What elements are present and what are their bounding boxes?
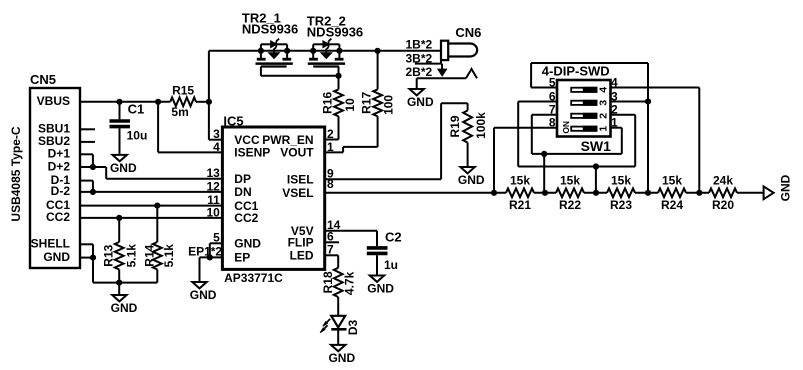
svg-text:DN: DN [234, 185, 251, 199]
svg-text:CN5: CN5 [30, 72, 56, 87]
svg-text:3: 3 [598, 100, 610, 106]
svg-text:GND: GND [407, 95, 434, 109]
node VBUS/C1 junction [116, 99, 122, 105]
ground GND under R13/R14 [111, 283, 138, 315]
wire D-2 / DN to IC5 pin 12 [80, 191, 222, 193]
svg-text:100: 100 [382, 95, 396, 115]
svg-text:DP: DP [234, 172, 251, 186]
IC5 left pin numbers [206, 127, 220, 245]
SW1 left pin numbers [549, 75, 556, 129]
svg-text:VBUS: VBUS [37, 94, 70, 108]
wire SW1 pin 7 / pin 1 net to chain J2 [532, 115, 622, 154]
svg-text:24k: 24k [713, 173, 733, 187]
svg-text:EP: EP [234, 251, 250, 265]
IC5 left pin names [234, 133, 270, 265]
wire R13/R14 ground rail [93, 282, 157, 284]
wire SW1 pin 4 to chain J5 [611, 88, 700, 193]
resistor R18 4.7k [321, 268, 357, 316]
resistor R15 5m [170, 83, 209, 119]
svg-text:100k: 100k [474, 112, 488, 139]
svg-text:R24: R24 [661, 198, 683, 212]
transistor TR2_2 NDS9936 [307, 13, 363, 66]
svg-text:4: 4 [213, 140, 220, 154]
resistor R14 5.1k [143, 206, 177, 283]
ground GND under D3 [328, 345, 355, 365]
svg-text:1: 1 [327, 140, 334, 154]
svg-text:C2: C2 [385, 230, 402, 245]
svg-text:13: 13 [206, 166, 220, 180]
wire SW1 pin 6 / pin 2 net [518, 102, 635, 167]
svg-text:IC5: IC5 [223, 113, 243, 128]
wire D+2 / DP to IC5 pin 13 [80, 167, 222, 179]
node pin7 net junction [541, 151, 547, 157]
svg-text:R22: R22 [559, 198, 581, 212]
node pin3 junction [645, 98, 651, 104]
svg-text:SHELL: SHELL [31, 237, 70, 251]
svg-text:NDS9936: NDS9936 [307, 24, 363, 39]
svg-text:D3: D3 [346, 320, 360, 336]
node CN5 GND junction [90, 255, 96, 261]
wire CN6 switch arrow [438, 64, 447, 76]
svg-text:10: 10 [343, 98, 357, 112]
svg-text:15k: 15k [611, 173, 631, 187]
svg-text:1: 1 [598, 126, 610, 132]
svg-text:C1: C1 [128, 102, 145, 117]
svg-text:1B*2: 1B*2 [406, 37, 433, 51]
transistor TR2_1 NDS9936 [242, 11, 298, 67]
wire SHELL to GND net [80, 244, 93, 282]
svg-text:GND: GND [328, 351, 355, 365]
resistor R22 15k [556, 173, 607, 212]
wire SW1 pin 3 [611, 101, 649, 103]
svg-text:2: 2 [598, 113, 610, 119]
svg-text:CN6: CN6 [455, 25, 481, 40]
wire CN5 GND pin [80, 257, 93, 259]
ground GND right of R20 [764, 174, 793, 201]
svg-text:LED: LED [290, 249, 314, 263]
svg-text:GND: GND [458, 173, 485, 187]
svg-text:ISEL: ISEL [287, 172, 314, 186]
svg-text:15k: 15k [560, 173, 580, 187]
SW1 right pin numbers [611, 75, 618, 129]
svg-text:FLIP: FLIP [288, 236, 314, 250]
svg-text:GND: GND [234, 237, 261, 251]
IC5 right pin numbers [327, 127, 341, 257]
svg-text:R17: R17 [360, 92, 374, 114]
diode D3 LED [320, 316, 360, 344]
svg-text:GND: GND [190, 288, 217, 302]
wire D-1 to D-2 [80, 181, 93, 192]
svg-text:GND: GND [111, 301, 138, 315]
svg-text:5.1k: 5.1k [125, 244, 139, 268]
svg-text:VSEL: VSEL [282, 186, 313, 200]
wire VCC: R15 right node up to MOSFET rail and down to IC5 pin 3 [209, 51, 223, 140]
svg-text:R19: R19 [448, 115, 462, 137]
node CC2/R13 junction [116, 215, 122, 221]
resistor R24 15k [658, 173, 709, 212]
svg-text:SW1: SW1 [581, 138, 612, 154]
wire FLIP stub IC5 pin 6 [325, 241, 339, 243]
svg-text:4: 4 [598, 87, 610, 93]
resistor R19 100k [448, 103, 488, 166]
ground GND under EP [190, 282, 217, 302]
capacitor C1 10u [110, 102, 148, 154]
resistor R23 15k [607, 173, 658, 212]
svg-text:VOUT: VOUT [280, 146, 314, 160]
wire D+1 to D+2 [80, 154, 93, 167]
svg-text:USB4085 Type-C: USB4085 Type-C [9, 126, 23, 221]
svg-text:2B*2: 2B*2 [406, 65, 433, 79]
svg-text:D+2: D+2 [48, 159, 71, 173]
svg-text:EP1*2: EP1*2 [188, 245, 222, 259]
svg-text:GND: GND [778, 174, 792, 201]
svg-text:5m: 5m [171, 105, 188, 119]
wire V5V from IC5 pin 14 to C2 [325, 231, 377, 247]
wire ISENP: VBUS down to IC5 pin 4 [158, 102, 222, 153]
wire SW1 pin 5 / pin 3 net to chain J4 [531, 63, 648, 193]
wire LED from IC5 pin 7 to R18 [325, 255, 339, 267]
connector CN6 barrel jack [441, 25, 481, 60]
svg-text:AP33771C: AP33771C [224, 271, 283, 285]
svg-text:R23: R23 [610, 198, 632, 212]
wire CN6 switch hook [466, 69, 477, 78]
wire SBU2 stub [80, 141, 95, 143]
wire TR2_1 gate to gate net [261, 67, 339, 76]
svg-text:R13: R13 [102, 244, 116, 266]
node D+ junction [90, 164, 96, 170]
node EP junction [207, 254, 213, 260]
svg-text:NDS9936: NDS9936 [242, 22, 298, 37]
SW1 slider digits [561, 87, 610, 134]
connector CN5 USB4085 Type-C [9, 72, 80, 268]
IC5 right pin names [262, 133, 314, 263]
svg-text:R16: R16 [321, 92, 335, 114]
svg-text:GND: GND [367, 282, 394, 296]
wire net 3B*2 stub [406, 51, 442, 65]
svg-text:10: 10 [206, 205, 220, 219]
svg-text:D-2: D-2 [51, 184, 71, 198]
wire J2 tap [543, 154, 545, 193]
switch SW1 4-DIP-SWD body [542, 64, 611, 154]
node gate junction [335, 73, 341, 79]
wire net 2B*2 to switch contact [406, 65, 467, 79]
wire SBU1 stub [80, 128, 95, 130]
node pin6 net to chain J3 [593, 163, 599, 169]
resistor R16 10 [321, 76, 358, 140]
ground GND under R19 [458, 167, 485, 187]
svg-text:10u: 10u [127, 128, 148, 142]
wire SW1 pin 8 to chain J1 [494, 128, 557, 193]
capacitor C2 1u [367, 230, 402, 275]
node rail/R17 junction [375, 48, 381, 54]
wire J3 tap [595, 167, 597, 193]
svg-text:15k: 15k [510, 173, 530, 187]
svg-text:CC2: CC2 [234, 211, 258, 225]
wire MOSFET drain rail to CN6 [209, 50, 441, 52]
nodes chain junctions [491, 190, 703, 196]
svg-text:R18: R18 [321, 271, 335, 293]
node R15 left junction [155, 99, 161, 105]
svg-text:3B*2: 3B*2 [406, 51, 433, 65]
wire CC1 to IC5 pin 11 [80, 205, 222, 207]
svg-text:GND: GND [43, 250, 70, 264]
ground GND under C2 [367, 276, 394, 296]
resistor R17 100 [325, 51, 396, 153]
svg-text:4.7k: 4.7k [343, 271, 357, 295]
svg-text:GND: GND [110, 161, 137, 175]
svg-text:CC2: CC2 [46, 210, 70, 224]
resistor R13 5.1k [102, 218, 139, 283]
svg-text:15k: 15k [662, 173, 682, 187]
resistor R20 24k [709, 173, 764, 212]
svg-text:R15: R15 [172, 83, 194, 97]
resistor R21 15k [506, 173, 556, 212]
op-amp U IC5 AP33771C body [222, 113, 324, 285]
ground GND under C1 [110, 155, 137, 175]
svg-text:1u: 1u [384, 258, 398, 272]
svg-text:R20: R20 [712, 198, 734, 212]
svg-text:ISENP: ISENP [234, 146, 270, 160]
svg-text:5.1k: 5.1k [162, 244, 176, 268]
svg-text:ON: ON [561, 121, 571, 134]
svg-text:R21: R21 [509, 198, 531, 212]
SW1 sliders [571, 87, 597, 132]
node CC1/R14 junction [154, 203, 160, 209]
svg-text:12: 12 [206, 179, 220, 193]
wire CC2 to IC5 pin 10 [80, 217, 222, 219]
wire ISEL from IC5 pin 9 to R19 [325, 103, 468, 179]
node R15 right junction [206, 99, 212, 105]
wire VBUS from CN5 to R15 [80, 101, 170, 103]
node R13 bottom junction [116, 280, 122, 286]
wire TR2_2 gate down [338, 67, 340, 76]
wire IC5 pin 5 GND [210, 243, 223, 257]
wire VSEL from IC5 pin 8 to resistor chain [325, 192, 506, 194]
node D- junction [90, 189, 96, 195]
svg-text:R14: R14 [143, 244, 157, 266]
ground GND under CN6 [407, 78, 434, 109]
wire EP net EP1*2 [188, 245, 222, 281]
